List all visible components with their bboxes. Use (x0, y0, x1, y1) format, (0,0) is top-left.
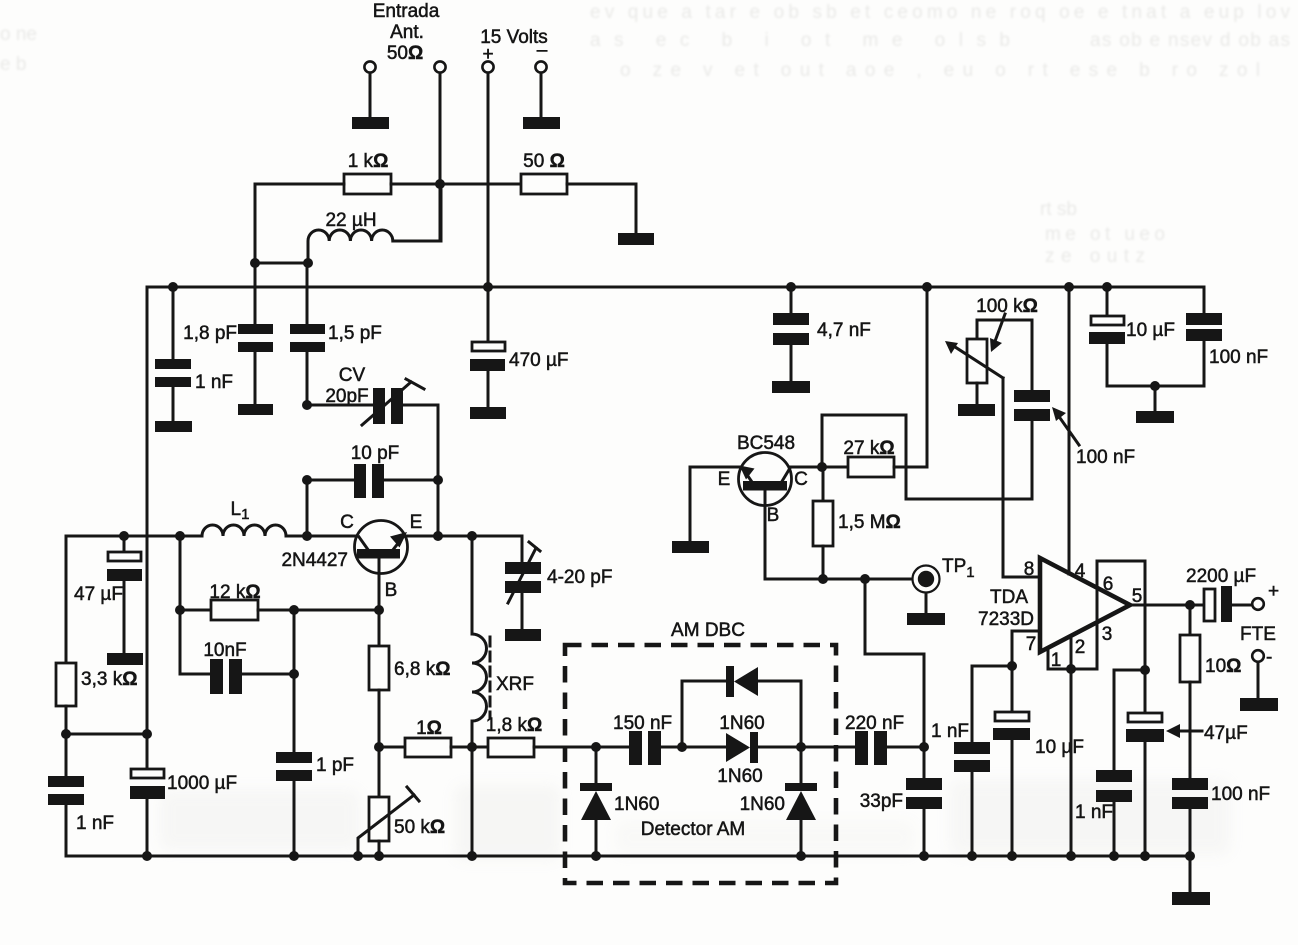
node junction bus 50kΩ (374, 851, 384, 861)
node junction bus pin2 (1066, 851, 1076, 861)
wire base node down (378, 610, 381, 646)
node junction CV left (302, 400, 312, 410)
ground 470µF (470, 407, 506, 419)
svg-text:4-20 pF: 4-20 pF (547, 567, 612, 588)
capacitor 10 pF (307, 443, 438, 498)
wire bus end to ground (1189, 856, 1192, 892)
capacitor 4-20 pF variable (505, 542, 612, 629)
node junction feedback (1140, 665, 1150, 675)
node junction bus pin4 riser (1064, 282, 1074, 292)
wire collector node to transistor (307, 535, 359, 538)
op-amp U1 TDA7233D (978, 558, 1130, 652)
wire rail down to 12kΩ (179, 536, 182, 610)
svg-text:6: 6 (1103, 574, 1114, 595)
terminal: +15V (482, 61, 493, 72)
svg-text:4: 4 (1075, 561, 1086, 582)
svg-text:3,3 kΩ: 3,3 kΩ (81, 669, 137, 690)
node junction bus 10µF (1102, 282, 1112, 292)
svg-text:2: 2 (1075, 637, 1086, 658)
resistor 1Ω (379, 718, 472, 757)
ground -15V (523, 117, 560, 129)
wire pins 1-2-3 ground rail (1048, 668, 1097, 671)
capacitor 100 nF (pot bottom) (1014, 390, 1135, 468)
node junction 10pF left (302, 475, 312, 485)
svg-text:L1: L1 (231, 499, 250, 523)
wire emitter to ground (690, 467, 739, 541)
diode 1N60 series (pointing right) (682, 732, 801, 787)
svg-text:Entrada: Entrada (373, 1, 440, 22)
svg-text:1N60: 1N60 (740, 794, 785, 815)
capacitor 470 µF electrolytic (470, 287, 569, 407)
wire pin7 node to 1nF (972, 665, 1012, 668)
node junction base (374, 605, 384, 615)
svg-text:BC548: BC548 (737, 433, 795, 454)
wire 27kΩ up to bus (926, 287, 929, 467)
svg-text:B: B (385, 580, 398, 601)
svg-text:1,8 pF: 1,8 pF (183, 323, 237, 344)
node junction XRF bottom (467, 742, 477, 752)
svg-text:6,8 kΩ: 6,8 kΩ (394, 659, 450, 680)
terminal: -15V (535, 61, 546, 72)
capacitor 10 µF electrolytic (supply) (1089, 287, 1175, 386)
svg-text:1N60: 1N60 (614, 794, 659, 815)
svg-text:150 nF: 150 nF (613, 713, 672, 734)
capacitor 150 nF (596, 713, 682, 765)
node: 15 Volts label (480, 27, 548, 65)
svg-text:1N60: 1N60 (717, 766, 762, 787)
svg-text:AM DBC: AM DBC (671, 620, 745, 641)
wire FTE- to ground (1257, 662, 1260, 698)
resistor 1 kΩ (344, 151, 391, 194)
svg-text:1Ω: 1Ω (416, 718, 442, 739)
ground FTE (1240, 698, 1278, 711)
svg-text:8: 8 (1024, 559, 1035, 580)
wire base rail (765, 578, 913, 581)
wire pin2 node to bus (1070, 669, 1073, 856)
ground 1nF (155, 421, 192, 432)
svg-text:1,5 pF: 1,5 pF (328, 323, 382, 344)
wire ground bus horizontal (66, 855, 1190, 858)
wire antenna terminal down to 1kΩ/50Ω line (439, 73, 442, 184)
svg-text:1000 µF: 1000 µF (167, 773, 237, 794)
svg-text:E: E (718, 469, 731, 490)
svg-text:470 µF: 470 µF (509, 350, 569, 371)
node junction 1000µF (142, 729, 152, 739)
svg-text:100 nF: 100 nF (1076, 447, 1135, 468)
node junction bus 1nF feedback (1109, 851, 1119, 861)
node junction 47µF top (119, 531, 129, 541)
node junction bus 1pF (289, 851, 299, 861)
capacitor 4,7 nF (773, 287, 871, 381)
node junction bus output (1185, 851, 1195, 861)
SECTION: background bleedthrough (0, 2, 1291, 267)
wire supply bus horizontal (147, 286, 1204, 289)
node junction 12kΩ right riser (289, 605, 299, 615)
wire 50Ω right to dummy ground (567, 184, 636, 233)
svg-text:10nF: 10nF (203, 640, 246, 661)
wire +15V down to bus (487, 73, 490, 287)
svg-text:–: – (537, 40, 548, 61)
transistor Q1 2N4427 (281, 512, 422, 610)
test point TP1 (913, 556, 975, 613)
node junction bus 1000µF (142, 851, 152, 861)
ground 4,7nF (772, 381, 810, 393)
capacitor 1 pF (276, 752, 354, 856)
svg-text:o ze v et out aoe , eu o rt es: o ze v et out aoe , eu o rt ese b ro zol (620, 60, 1260, 81)
svg-text:3: 3 (1102, 624, 1113, 645)
svg-text:2N4427: 2N4427 (281, 550, 348, 571)
svg-text:50Ω: 50Ω (387, 43, 423, 64)
svg-text:FTE: FTE (1240, 624, 1276, 645)
diode 1N60 top (pointing left) (719, 666, 801, 734)
node junction bus 33pF (919, 851, 929, 861)
node junction bus 10µF pin7 (1007, 851, 1017, 861)
capacitor 10nF (203, 640, 294, 694)
node junction bus diode left (591, 851, 601, 861)
capacitor 33pF (860, 747, 942, 856)
node junction bus diode right (796, 851, 806, 861)
wire riser down to 1pF (293, 674, 296, 752)
wire XRF bottom to bus (471, 747, 474, 856)
svg-text:220 nF: 220 nF (845, 713, 904, 734)
capacitor 1,8 pF (183, 263, 273, 404)
ground 1,8pF (238, 404, 273, 415)
node junction 6,8kΩ / 1Ω (374, 742, 384, 752)
wire node to 1000µF node (66, 733, 147, 736)
svg-text:7233D: 7233D (978, 609, 1034, 630)
wire emitter rail left (66, 536, 202, 663)
node junction bus 50kΩ wiper (353, 851, 363, 861)
node junction detector out (796, 742, 806, 752)
wire 3,3kΩ down to node (65, 706, 68, 734)
capacitor 1 nF (input filter) (155, 287, 233, 421)
capacitor 2200 µF electrolytic (1186, 566, 1256, 622)
svg-text:1 nF: 1 nF (195, 372, 233, 393)
node junction collector tank (302, 531, 312, 541)
ground supply decoupling (1136, 411, 1174, 423)
svg-text:100 nF: 100 nF (1211, 784, 1270, 805)
node junction 12kΩ rail top (175, 531, 185, 541)
ground 4-20pF (505, 629, 541, 641)
wire -15V to ground (540, 73, 543, 117)
svg-text:4,7 nF: 4,7 nF (817, 320, 871, 341)
terminal: antenna ground side (364, 61, 375, 72)
svg-text:1 nF: 1 nF (76, 813, 114, 834)
wire 1,5pF node down to collector (306, 480, 309, 536)
node junction 12kΩ left (175, 605, 185, 615)
ground main (1172, 892, 1210, 905)
node junction XRF top (467, 531, 477, 541)
wire emitter node right (438, 535, 472, 538)
node junction 1,5MΩ base (818, 574, 828, 584)
resistor 10Ω (1180, 605, 1241, 778)
svg-text:rt sb: rt sb (1040, 199, 1077, 220)
capacitor 1,5 pF (290, 263, 382, 405)
svg-text:50 kΩ: 50 kΩ (394, 817, 445, 838)
node: AM DBC dashed enclosure (565, 620, 836, 883)
capacitor 47 µF electrolytic (74, 536, 142, 653)
wire 22µH right end up to antenna node (394, 184, 441, 241)
node junction pin2 ground (1066, 664, 1076, 674)
svg-text:100 nF: 100 nF (1209, 347, 1268, 368)
capacitor CV 20pF variable (307, 365, 438, 425)
capacitor 1 nF (feedback) (1075, 670, 1132, 856)
ground 100kΩ (958, 404, 995, 416)
wire emitter to E node (403, 535, 438, 538)
capacitor 100 nF (supply) (1186, 287, 1268, 386)
wire junction to 22µH left (255, 262, 308, 265)
resistor 27 kΩ (822, 438, 927, 477)
wire 6,8kΩ down (378, 690, 381, 747)
wire TP branch down to audio node (865, 579, 924, 747)
capacitor 1000 µF electrolytic (130, 734, 237, 856)
node junction emitter (433, 531, 443, 541)
potentiometer 50 kΩ (358, 787, 445, 856)
node junction TP branch (860, 574, 870, 584)
svg-text:o ne: o ne (0, 24, 37, 45)
node junction bus 1nF pin7 (967, 851, 977, 861)
svg-text:10Ω: 10Ω (1205, 656, 1241, 677)
resistor 50 Ω (521, 151, 567, 194)
svg-text:1,5 MΩ: 1,5 MΩ (838, 512, 901, 533)
node junction bus 47µF (1140, 851, 1150, 861)
node junction shunt diode left (591, 742, 601, 752)
svg-text:me ot ueo: me ot ueo (1045, 224, 1165, 245)
svg-text:10 pF: 10 pF (351, 443, 400, 464)
resistor 12 kΩ (180, 582, 379, 620)
terminal: antenna signal (434, 61, 445, 72)
node junction collector (817, 462, 827, 472)
pin 6/3 feedback box (1097, 561, 1145, 670)
ground 50Ω load (618, 233, 654, 245)
svg-text:+: + (1268, 581, 1279, 602)
wire wiper down to pin8 (1003, 378, 1040, 577)
capacitor 47µF electrolytic (feedback) (1126, 670, 1248, 856)
wire junction to ground (1154, 386, 1157, 411)
svg-text:C: C (340, 512, 354, 533)
ground BC548 emitter (672, 541, 709, 553)
svg-text:50 Ω: 50 Ω (523, 151, 565, 172)
wire pin 5 output (1130, 604, 1204, 607)
svg-text:TP1: TP1 (942, 556, 975, 581)
svg-text:47 µF: 47 µF (74, 584, 123, 605)
wire bus left end down (146, 287, 149, 734)
node junction pin7 (1007, 661, 1017, 671)
wire antenna terminal to ground (369, 73, 372, 117)
resistor 1,5 MΩ (813, 467, 901, 579)
svg-text:2200 µF: 2200 µF (1186, 566, 1256, 587)
node junction 22µH left (303, 258, 313, 268)
svg-text:Ant.: Ant. (390, 22, 424, 43)
capacitor 1 nF (pin7) (931, 666, 990, 856)
svg-text:22 µH: 22 µH (325, 210, 376, 231)
node junction output (1185, 600, 1195, 610)
pin 4 wire from bus (1068, 287, 1071, 574)
capacitor 1 nF (bottom left) (48, 734, 114, 856)
inductor 22 µH (308, 210, 394, 263)
svg-text:1 kΩ: 1 kΩ (348, 151, 389, 172)
wire 1kΩ right to 50Ω left (391, 183, 521, 186)
diode 1N60 shunt left (pointing up) (580, 747, 659, 856)
node junction bus XRF (467, 851, 477, 861)
wire top diode down to output node (800, 681, 803, 747)
svg-text:E: E (410, 512, 423, 533)
wire supply decoupling join (1107, 385, 1204, 388)
node: Entrada Ant. 50Ω label (373, 1, 440, 64)
transistor Q2 BC548 (718, 433, 808, 579)
wire 12kΩ left node down to 10nF (180, 610, 210, 674)
wire 1kΩ left around to inductor node (255, 184, 344, 263)
wire collector feedback loop (822, 415, 1032, 499)
pin 2 wire (1070, 637, 1073, 669)
potentiometer 100 kΩ (945, 296, 1038, 404)
resistor 3,3 kΩ (56, 663, 137, 706)
capacitor 220 nF (801, 713, 924, 765)
wire L1 right to collector node (286, 535, 307, 538)
svg-text:XRF: XRF (496, 674, 534, 695)
wire riser 12kΩ right to 10nF right (293, 610, 296, 674)
svg-text:CV: CV (339, 365, 366, 386)
svg-text:47µF: 47µF (1204, 723, 1248, 744)
svg-text:Detector AM: Detector AM (641, 819, 746, 840)
svg-text:1 nF: 1 nF (931, 721, 969, 742)
svg-text:10 µF: 10 µF (1035, 737, 1084, 758)
svg-text:as ec b i ot me olsb: as ec b i ot me olsb (590, 30, 1010, 51)
svg-text:e b: e b (0, 54, 26, 75)
svg-text:ev que a tar e ob sb et ceomo: ev que a tar e ob sb et ceomo ne roq oe … (590, 2, 1291, 23)
node junction bus 1nF (168, 282, 178, 292)
wire CV right down (437, 405, 440, 480)
node junction decoupling ground (1150, 381, 1160, 391)
node junction 10nF right (289, 669, 299, 679)
wire feedback box to caps (1114, 669, 1145, 672)
resistor 6,8 kΩ (369, 646, 450, 690)
node junction doubler in (677, 742, 687, 752)
ground TP1 (907, 613, 945, 625)
resistor 1,8 kΩ (472, 715, 596, 757)
terminal FTE + (1252, 598, 1264, 610)
svg-text:as ob e nsev d ob as: as ob e nsev d ob as (1090, 30, 1290, 51)
ground 47µF (107, 653, 143, 665)
svg-text:B: B (767, 505, 780, 526)
terminal FTE - (1252, 650, 1264, 662)
pin 1 wire (1047, 649, 1050, 669)
svg-text:1N60: 1N60 (719, 713, 764, 734)
node junction left feed (250, 258, 260, 268)
wire node down to 50kΩ (378, 747, 381, 797)
node junction bus 4,7nF (786, 282, 796, 292)
svg-text:ze outz: ze outz (1045, 246, 1145, 267)
wire antenna node down to 22µH (439, 184, 442, 241)
svg-text:10 µF: 10 µF (1126, 320, 1175, 341)
svg-text:-: - (1266, 647, 1272, 668)
node junction audio out (919, 742, 929, 752)
node junction 3,3kΩ / 1nF (61, 729, 71, 739)
wire collector to node (790, 466, 822, 469)
svg-text:100 kΩ: 100 kΩ (976, 296, 1038, 317)
node junction bus +15V (483, 282, 493, 292)
svg-text:1,8 kΩ: 1,8 kΩ (486, 715, 542, 736)
capacitor 100 nF (output) (1172, 778, 1270, 856)
diode 1N60 shunt right (pointing up) (740, 747, 817, 856)
svg-text:C: C (794, 469, 808, 490)
capacitor 10 µF electrolytic (pin7) (993, 666, 1084, 856)
svg-text:33pF: 33pF (860, 791, 903, 812)
svg-text:1 nF: 1 nF (1075, 802, 1113, 823)
svg-text:7: 7 (1026, 634, 1037, 655)
node junction bus 27kΩ (922, 282, 932, 292)
node junction 10pF right (433, 475, 443, 485)
inductor L1 (202, 499, 286, 536)
ground antenna (352, 117, 389, 129)
svg-text:1 pF: 1 pF (316, 755, 354, 776)
wire to 4-20pF (472, 536, 522, 562)
pin 7 wire (1012, 631, 1040, 666)
inductor XRF choke (472, 536, 534, 747)
wire 10pF right down to emitter line (437, 480, 440, 536)
wire branch up to top diode (682, 681, 727, 747)
node junction antenna line (435, 179, 445, 189)
svg-text:TDA: TDA (990, 587, 1028, 608)
